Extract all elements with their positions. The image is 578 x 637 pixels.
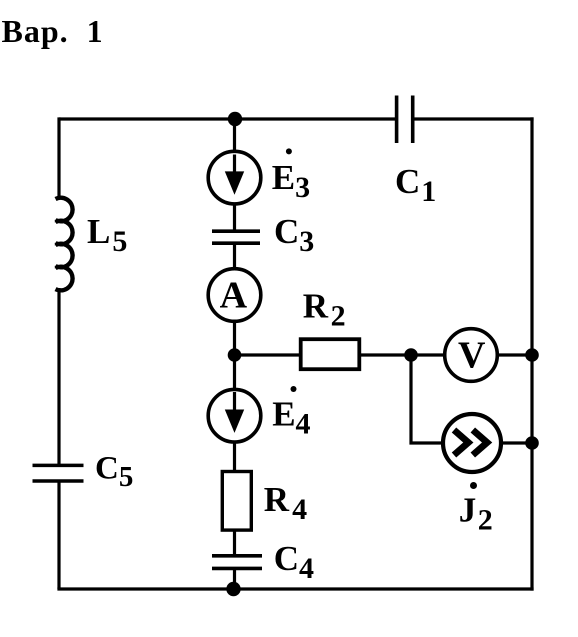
wire left edge lower segment — [57, 481, 60, 589]
capacitor C4 — [212, 554, 262, 558]
node dot at branch — [404, 348, 418, 362]
source E4 — [208, 389, 261, 442]
label E3 with dot — [286, 148, 292, 154]
svg-text:C5: C5 — [95, 451, 133, 494]
label J2 with dot — [470, 482, 477, 489]
resistor R2 — [301, 339, 360, 369]
node dot middle junction — [228, 348, 242, 362]
wire top edge left segment — [59, 117, 395, 120]
node dot right edge at J2 — [525, 436, 539, 450]
node dot top junction — [228, 112, 242, 126]
wire R4 to C4 — [233, 530, 236, 556]
svg-text:C1: C1 — [395, 162, 436, 208]
capacitor C3 — [212, 229, 260, 233]
svg-text:V: V — [458, 335, 486, 377]
node dot bottom junction — [226, 582, 240, 596]
svg-text:R2: R2 — [303, 286, 346, 332]
wire middle junction to R2 — [235, 353, 301, 356]
source E3 — [208, 151, 261, 204]
svg-text:C3: C3 — [274, 212, 314, 258]
capacitor C5 — [33, 464, 84, 468]
svg-text:Вар. 1: Вар. 1 — [2, 13, 104, 49]
capacitor C1 — [395, 96, 399, 144]
wire C3 to ammeter — [233, 243, 236, 270]
wire top junction to E3 — [233, 119, 236, 152]
svg-text:R4: R4 — [264, 480, 307, 526]
svg-text:A: A — [220, 274, 248, 316]
wire bottom edge — [57, 587, 533, 590]
wire left edge middle segment — [57, 288, 60, 465]
inductor L5 — [56, 198, 73, 291]
wire left edge upper segment — [57, 117, 60, 197]
ammeter A — [208, 269, 261, 322]
wire E3 to C3 — [233, 203, 236, 231]
wire top edge right segment — [414, 117, 534, 120]
svg-text:E4: E4 — [272, 394, 310, 440]
wire C4 to bottom edge — [233, 568, 236, 589]
wire node down to J2 branch — [411, 355, 444, 443]
voltmeter V — [445, 329, 498, 382]
wire J2 to right edge — [500, 441, 532, 444]
wire E4 to R4 — [233, 442, 236, 472]
node dot right edge at V — [525, 348, 539, 362]
svg-text:C4: C4 — [274, 539, 314, 585]
svg-text:L5: L5 — [87, 212, 127, 258]
resistor R4 — [222, 472, 251, 531]
svg-text:E3: E3 — [272, 158, 310, 204]
wire right edge — [530, 117, 533, 590]
label E4 with dot — [291, 386, 297, 392]
wire ammeter to middle junction to E4 — [233, 320, 236, 390]
svg-text:J2: J2 — [459, 490, 493, 536]
wire R2 to node — [360, 353, 444, 356]
source J2 — [443, 414, 501, 472]
wire V to right edge — [497, 353, 532, 356]
